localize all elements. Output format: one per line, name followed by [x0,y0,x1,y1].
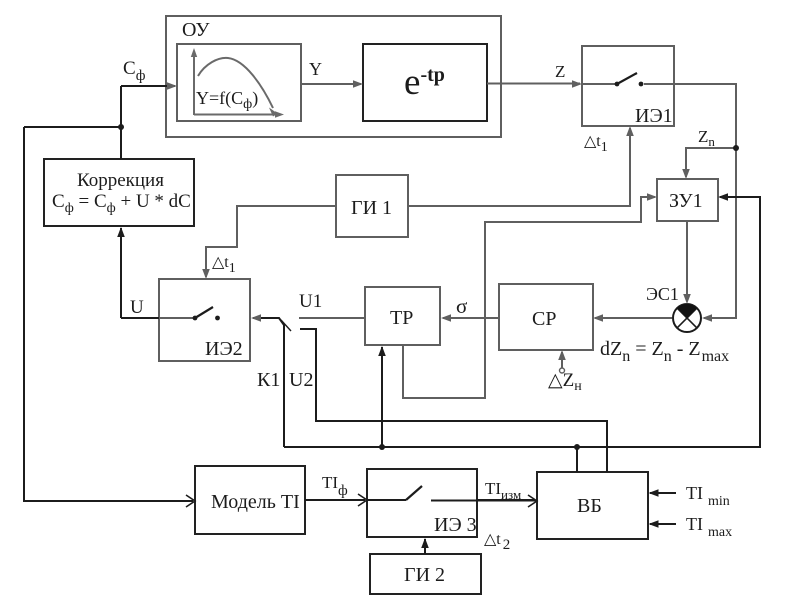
svg-text:σ: σ [456,294,467,318]
svg-text:СР: СР [532,308,556,330]
svg-text:ОУ: ОУ [182,19,210,41]
svg-text:ЭС1: ЭС1 [646,284,679,304]
svg-text:Модель TI: Модель TI [211,491,300,513]
svg-text:U: U [130,297,144,318]
svg-text:ГИ 1: ГИ 1 [351,197,392,219]
svg-text:ТР: ТР [390,307,413,329]
svg-text:ЗУ1: ЗУ1 [669,190,703,212]
svg-text:Коррекция: Коррекция [77,170,164,191]
svg-text:ВБ: ВБ [577,495,602,517]
svg-text:ГИ 2: ГИ 2 [404,564,445,586]
svg-text:ИЭ 3: ИЭ 3 [434,514,477,536]
svg-text:ИЭ1: ИЭ1 [635,105,673,127]
svg-text:Z: Z [555,62,565,81]
svg-text:U2: U2 [289,369,313,391]
svg-text:К1: К1 [257,369,280,391]
svg-text:ИЭ2: ИЭ2 [205,338,243,360]
svg-text:U1: U1 [299,291,322,312]
svg-text:Y: Y [309,59,322,79]
